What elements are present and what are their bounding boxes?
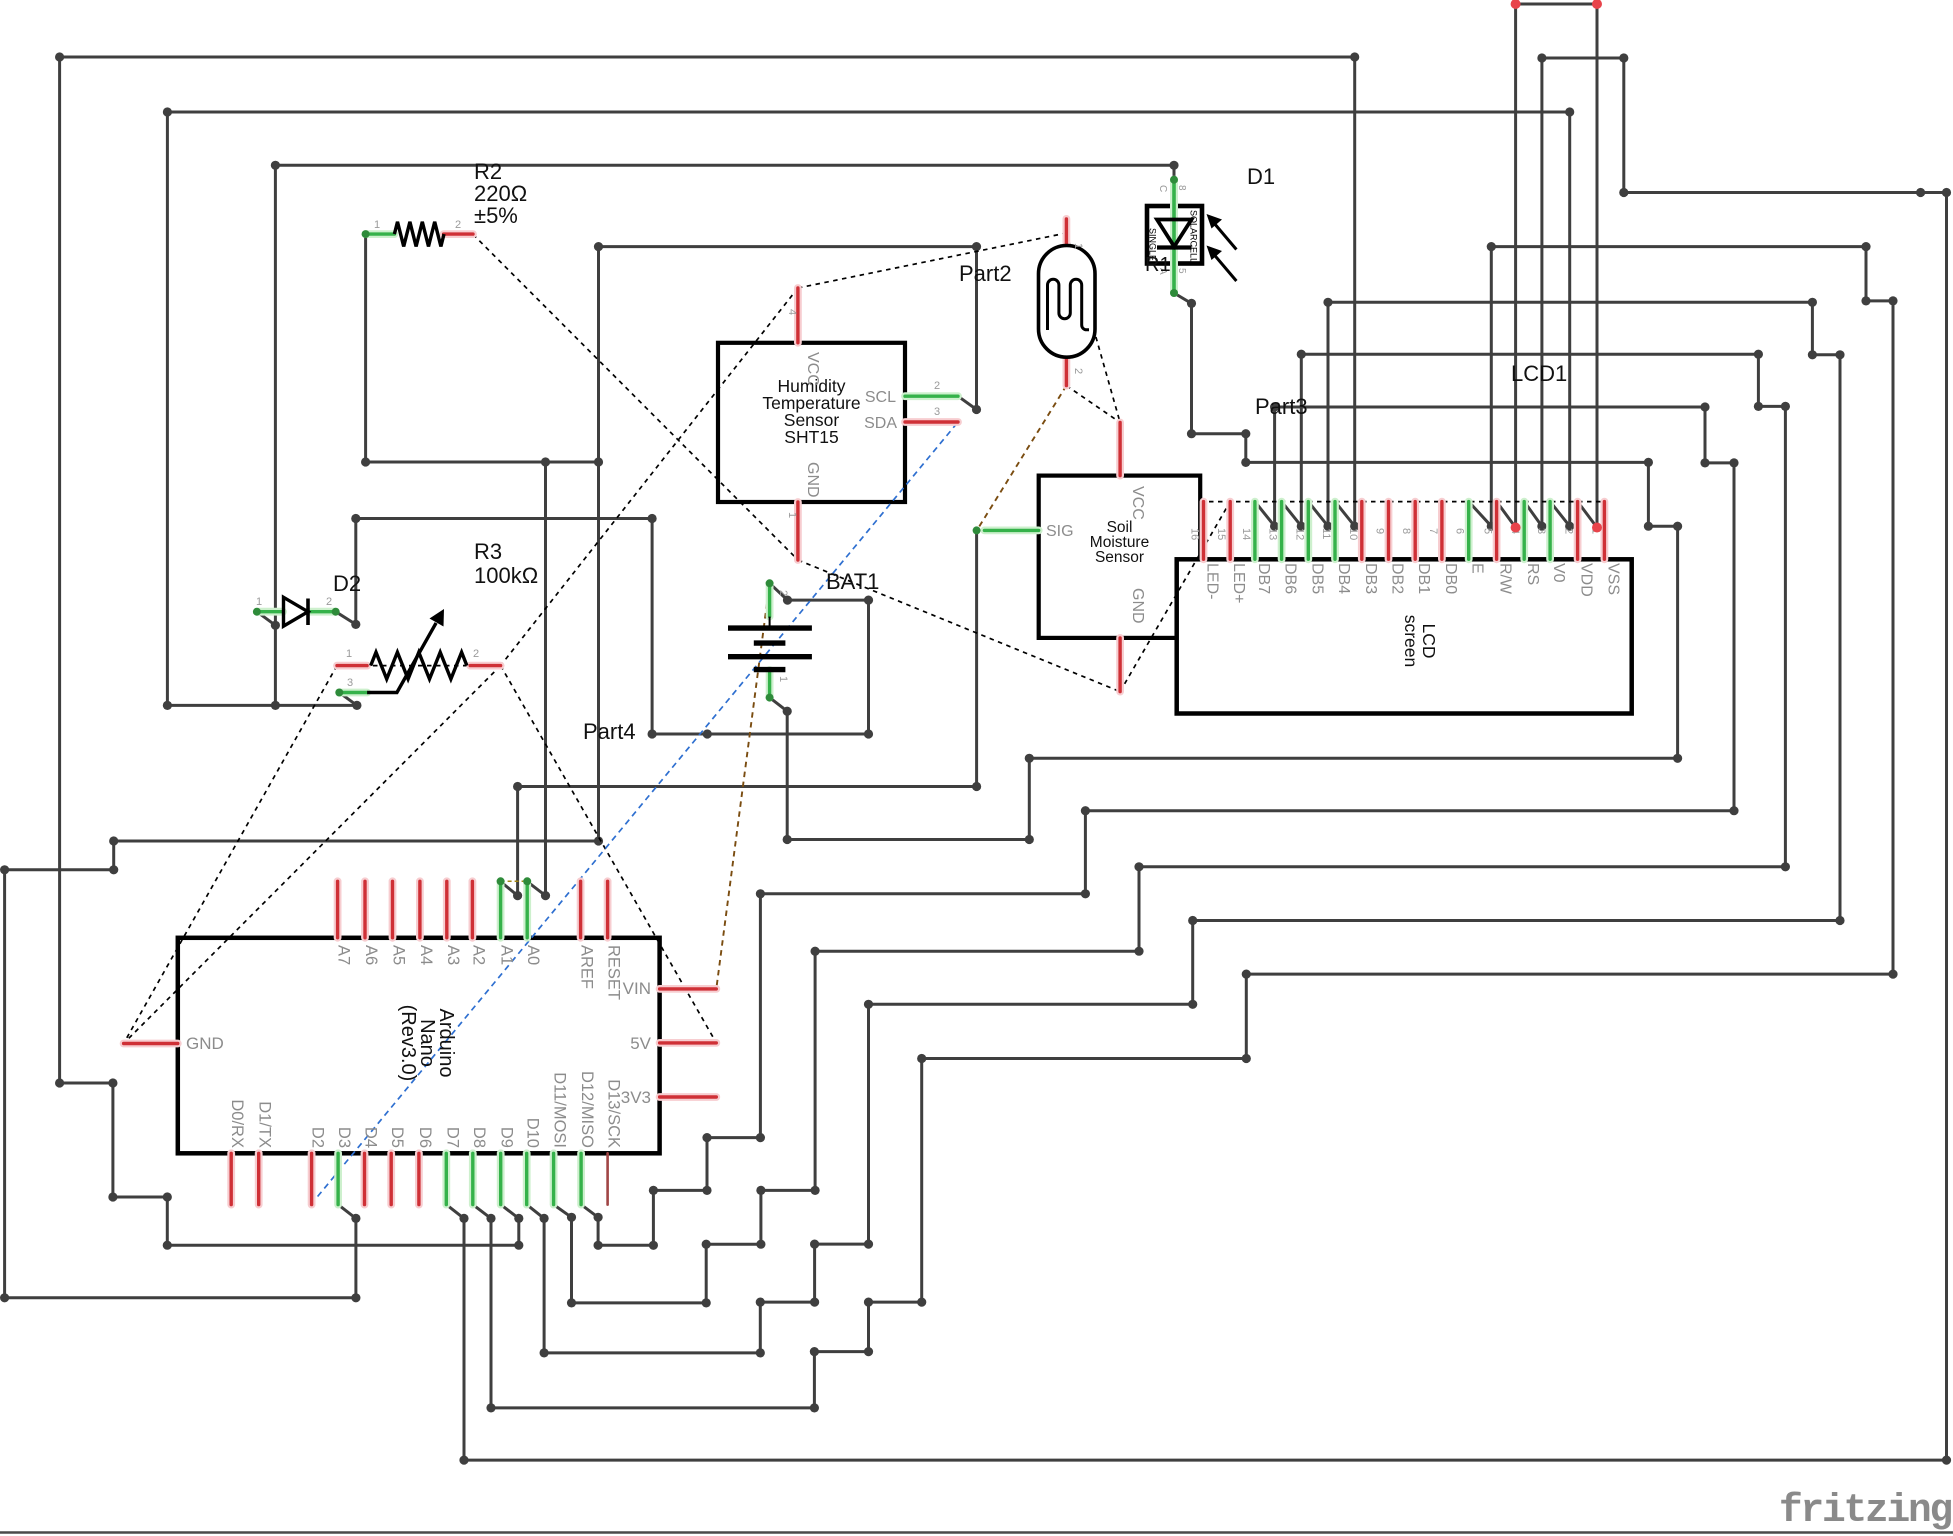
svg-text:LCD1: LCD1: [1511, 361, 1567, 386]
svg-text:A0: A0: [524, 945, 542, 965]
wire LCD.V0 to R3.pin3: [167, 112, 1569, 705]
LDR pin 2 lead: [1063, 357, 1071, 386]
ratsnest Arduino.A1 to A0 (olive): [501, 880, 528, 882]
svg-text:VDD: VDD: [1578, 563, 1595, 597]
svg-text:5V: 5V: [630, 1034, 651, 1053]
svg-text:DB1: DB1: [1415, 563, 1432, 594]
Arduino pin A6 lead: [361, 881, 369, 938]
svg-text:A3: A3: [444, 945, 462, 965]
R3 pin 2 lead: [470, 662, 500, 670]
ratsnest LDR.pin2 to Soil.VCC: [1066, 386, 1120, 423]
wire LCD.RS to Arduino.D7: [446, 58, 1946, 1460]
svg-text:5: 5: [1482, 528, 1494, 534]
svg-text:8: 8: [1400, 528, 1412, 534]
svg-text:DB4: DB4: [1335, 563, 1352, 594]
svg-text:2: 2: [777, 590, 789, 596]
Arduino pin A5 lead: [389, 881, 397, 938]
Arduino pin AREF lead: [577, 881, 585, 938]
LCD pin 8 DB1 lead: [1411, 502, 1419, 560]
SHT15 SCL pin lead: [905, 392, 958, 400]
wire LCD.E to Arduino.D8: [473, 247, 1893, 1408]
svg-text:D12/MISO: D12/MISO: [578, 1071, 596, 1148]
svg-text:V0: V0: [1550, 563, 1567, 583]
svg-text:13: 13: [1267, 528, 1279, 540]
LCD pin 5 R/W lead: [1493, 502, 1501, 560]
svg-text:3V3: 3V3: [621, 1088, 651, 1107]
ratsnest along LCD pin tops: [1200, 501, 1604, 503]
svg-text:SCL: SCL: [865, 389, 896, 406]
BAT1 pin 1 lead: [766, 670, 774, 698]
svg-text:Part3: Part3: [1255, 394, 1308, 419]
Arduino pin D8 lead: [469, 1153, 477, 1204]
wire LCD.R/W to LCD.VDD (red endpoints): [1497, 4, 1597, 528]
Arduino pin D4 lead: [361, 1153, 369, 1204]
svg-text:fritzing: fritzing: [1779, 1488, 1952, 1533]
R3 pin 3 lead: [339, 689, 367, 697]
svg-text:D1: D1: [1247, 164, 1275, 189]
wire LCD.DB4 to Arduino.D9 (outer loop): [60, 57, 1355, 1245]
svg-text:(Rev3.0): (Rev3.0): [397, 1005, 419, 1082]
svg-text:D1/TX: D1/TX: [256, 1101, 274, 1148]
wire R2.pin1 branch to SCL rail: [366, 234, 599, 462]
svg-text:7: 7: [1427, 528, 1439, 534]
svg-text:1: 1: [1072, 243, 1084, 249]
red wire endpoint dots: [1511, 523, 1521, 533]
svg-text:D5: D5: [388, 1127, 406, 1148]
svg-text:1: 1: [256, 596, 262, 608]
svg-text:Part4: Part4: [583, 719, 636, 744]
LCD pin 13 DB6 lead: [1278, 502, 1286, 560]
ratsnest R3.pin2 to Arduino.5V: [501, 666, 717, 1043]
svg-text:BAT1: BAT1: [826, 569, 879, 594]
BAT1 pin 2 lead: [766, 583, 774, 616]
svg-text:DB2: DB2: [1389, 563, 1406, 594]
svg-text:14: 14: [1240, 528, 1252, 540]
svg-text:C: C: [1157, 185, 1168, 192]
LCD pin 14 DB7 lead: [1251, 502, 1259, 560]
svg-text:2: 2: [326, 596, 332, 608]
LCD pin 10 DB3 lead: [1358, 502, 1366, 560]
svg-text:D6: D6: [416, 1127, 434, 1148]
svg-text:DB3: DB3: [1362, 563, 1379, 594]
SHT15 SDA pin lead: [905, 418, 958, 426]
svg-text:RS: RS: [1524, 563, 1541, 585]
Arduino pin RESET lead: [604, 881, 612, 938]
Soil Moisture Sensor box: [1039, 476, 1201, 638]
Soil VCC pin lead: [1116, 423, 1124, 476]
wire LCD.DB7 to Arduino.D12: [581, 407, 1734, 1245]
svg-text:A6: A6: [362, 945, 380, 965]
Arduino pin D2 lead: [308, 1153, 316, 1204]
svg-text:D11/MOSI: D11/MOSI: [551, 1072, 569, 1148]
Arduino pin D5 lead: [387, 1153, 395, 1204]
svg-text:LED+: LED+: [1230, 563, 1247, 603]
svg-text:GND: GND: [1129, 588, 1146, 624]
wire branch to Arduino.A0: [527, 462, 545, 896]
SHT15 sensor box: [718, 343, 905, 502]
svg-text:3: 3: [347, 677, 353, 689]
svg-text:Sensor: Sensor: [1095, 549, 1144, 566]
svg-text:1: 1: [777, 676, 789, 682]
svg-text:2: 2: [473, 648, 479, 660]
svg-text:AREF: AREF: [578, 945, 596, 989]
wire D1.A to BAT1.pin1 node: [787, 293, 1677, 840]
Arduino VIN pin lead: [660, 985, 717, 993]
svg-text:R3: R3: [474, 539, 502, 564]
svg-text:1: 1: [374, 219, 380, 231]
Arduino 5V pin lead: [660, 1039, 717, 1047]
wire D1.C to node at R3.pin3 rail: [275, 165, 1174, 705]
Arduino pin A4 lead: [416, 881, 424, 938]
Arduino pin D7 lead: [442, 1153, 450, 1204]
svg-text:16: 16: [1189, 528, 1201, 540]
D2 pin 2 lead: [308, 608, 336, 616]
Arduino pin A2 lead: [468, 881, 476, 938]
wire SHT15.SCL to Arduino.D3: [5, 247, 977, 1298]
svg-text:10: 10: [1347, 528, 1359, 540]
ratsnest Soil.GND to LCD.LED+: [1120, 502, 1230, 692]
page bottom border: [0, 1531, 1953, 1533]
svg-text:VCC: VCC: [804, 352, 821, 386]
Arduino pin D13/SCK lead: [606, 1153, 609, 1204]
svg-text:2: 2: [1072, 368, 1084, 374]
LCD pin 2 VDD lead: [1574, 502, 1582, 560]
Soil SIG pin lead: [984, 527, 1038, 535]
svg-text:E: E: [1469, 563, 1486, 574]
svg-text:D4: D4: [362, 1127, 380, 1148]
LCD pin 1 VSS lead: [1601, 502, 1609, 560]
svg-text:D10: D10: [524, 1118, 542, 1148]
svg-text:D2: D2: [333, 571, 361, 596]
Arduino pin D10 lead: [523, 1153, 531, 1204]
Arduino pin D9 lead: [497, 1153, 505, 1204]
wire BAT1.pin2 to D2.pin2: [336, 519, 869, 735]
svg-text:LED-: LED-: [1204, 563, 1221, 599]
Arduino pin D6 lead: [415, 1153, 423, 1204]
LCD pin 6 E lead: [1465, 502, 1473, 560]
Arduino pin A0 lead: [523, 881, 531, 938]
Arduino 3V3 pin lead: [660, 1093, 717, 1101]
svg-text:11: 11: [1320, 528, 1332, 539]
svg-text:D9: D9: [498, 1127, 516, 1148]
svg-text:A4: A4: [417, 945, 435, 965]
svg-text:D2: D2: [309, 1127, 327, 1148]
SHT15 VCC pin lead: [794, 288, 802, 343]
svg-text:VIN: VIN: [623, 979, 651, 998]
svg-text:DB0: DB0: [1442, 563, 1459, 594]
D1 pin C-A green lead: [1170, 180, 1178, 293]
svg-text:2: 2: [1563, 528, 1575, 534]
Arduino pin D0/RX lead: [227, 1153, 235, 1204]
LCD pin 11 DB4 lead: [1331, 502, 1339, 560]
R3 pin 1 lead: [337, 662, 367, 670]
Arduino pin D12/MISO lead: [577, 1153, 585, 1204]
wire BAT1.pin1 down to node: [770, 698, 788, 840]
svg-text:A5: A5: [390, 945, 408, 965]
svg-text:±5%: ±5%: [474, 203, 518, 228]
Arduino pin A7 lead: [334, 881, 342, 938]
svg-text:15: 15: [1215, 528, 1227, 540]
LDR pin 1 lead: [1063, 219, 1071, 251]
SHT15 GND pin lead: [794, 502, 802, 560]
ratsnest LDR.pin1 to Soil.VCC: [1067, 233, 1121, 423]
svg-text:5: 5: [1176, 268, 1187, 274]
svg-text:GND: GND: [804, 462, 821, 498]
wire Soil.SIG to Arduino.A1: [501, 530, 977, 895]
svg-text:VCC: VCC: [1129, 486, 1146, 520]
svg-text:A7: A7: [335, 945, 353, 965]
svg-text:screen: screen: [1401, 615, 1421, 668]
LCD pin 16 LED- lead: [1200, 502, 1208, 560]
svg-text:12: 12: [1293, 528, 1305, 540]
LCD1 screen box: [1177, 559, 1632, 713]
svg-text:D7: D7: [443, 1127, 461, 1148]
ratsnest BAT1.pin2 to Arduino.VIN (brown): [716, 583, 769, 989]
svg-text:GND: GND: [186, 1034, 224, 1053]
svg-text:SDA: SDA: [864, 415, 897, 432]
svg-text:Part2: Part2: [959, 261, 1012, 286]
Arduino pin D3 lead: [334, 1153, 342, 1204]
wire LCD.DB6 to Arduino.D11: [554, 354, 1786, 1303]
ratsnest SHT15.VCC to R3.pin2: [501, 288, 798, 666]
svg-text:1: 1: [786, 512, 798, 518]
svg-text:2: 2: [934, 380, 940, 392]
svg-text:VSS: VSS: [1604, 563, 1621, 595]
ratsnest R3.pin2 to Arduino.GND: [124, 666, 501, 1044]
ratsnest R3.pin1 to R3.pin2: [337, 665, 501, 667]
ratsnest SHT15.VCC to LDR.pin1: [798, 233, 1067, 288]
LCD pin 9 DB2 lead: [1385, 502, 1393, 560]
svg-text:DB6: DB6: [1282, 563, 1299, 594]
svg-text:DB5: DB5: [1308, 563, 1325, 594]
svg-text:LCD: LCD: [1419, 623, 1439, 658]
D2 pin 1 lead: [257, 608, 283, 616]
svg-text:8: 8: [1176, 185, 1187, 191]
LCD pin 3 V0 lead: [1546, 502, 1554, 560]
svg-text:RESET: RESET: [605, 945, 623, 1000]
svg-text:R1: R1: [1145, 254, 1171, 276]
ratsnest SHT15.GND to Soil.GND: [798, 560, 1120, 692]
svg-text:100kΩ: 100kΩ: [474, 563, 538, 588]
Soil GND pin lead: [1116, 638, 1124, 692]
wire LCD.DB5 to Arduino.D10: [527, 302, 1840, 1353]
svg-text:SOLARCELL: SOLARCELL: [1189, 210, 1199, 263]
Arduino Nano box: [178, 938, 660, 1154]
svg-text:D8: D8: [470, 1127, 488, 1148]
svg-text:D3: D3: [335, 1127, 353, 1148]
svg-text:3: 3: [1535, 528, 1547, 534]
svg-text:D0/RX: D0/RX: [228, 1099, 246, 1148]
LCD pin 15 LED+ lead: [1226, 502, 1234, 560]
ratsnest Arduino.D2 to SHT15.SDA (blue): [311, 422, 958, 1205]
ratsnest LDR.pin2 to Soil.SIG (brown): [977, 386, 1067, 531]
svg-text:4: 4: [786, 309, 798, 315]
Arduino GND pin lead: [124, 1040, 178, 1048]
Arduino pin D11/MOSI lead: [550, 1153, 558, 1204]
svg-text:A1: A1: [498, 945, 516, 965]
svg-text:SHT15: SHT15: [784, 427, 838, 447]
svg-text:3: 3: [934, 406, 940, 418]
solar cell D1: [1147, 206, 1202, 264]
wire D2.pin1 jog: [257, 612, 276, 626]
svg-text:9: 9: [1374, 528, 1386, 534]
R2 pin 1 lead: [366, 230, 395, 238]
LCD pin 4 RS lead: [1520, 502, 1528, 560]
svg-text:2: 2: [455, 219, 461, 231]
ratsnest R3.pin1 to Arduino.GND: [124, 666, 337, 1044]
svg-text:1: 1: [346, 648, 352, 660]
svg-text:DB7: DB7: [1255, 563, 1272, 594]
svg-text:R/W: R/W: [1497, 563, 1514, 595]
Arduino pin A3 lead: [443, 881, 451, 938]
LCD pin 12 DB5 lead: [1304, 502, 1312, 560]
D1 light arrows: [1211, 220, 1236, 250]
ratsnest R2.pin2 to SHT15.GND: [473, 234, 798, 560]
Arduino pin D1/TX lead: [255, 1153, 263, 1204]
svg-text:A2: A2: [469, 945, 487, 965]
Arduino pin A1 lead: [497, 881, 505, 938]
svg-text:6: 6: [1454, 528, 1466, 534]
R2 pin 2 lead: [444, 230, 473, 238]
svg-text:SIG: SIG: [1046, 523, 1074, 540]
LCD pin 7 DB0 lead: [1438, 502, 1446, 560]
